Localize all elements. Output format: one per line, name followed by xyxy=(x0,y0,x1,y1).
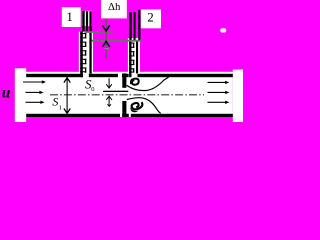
svg-text:1: 1 xyxy=(66,9,73,24)
svg-text:1: 1 xyxy=(59,105,62,112)
svg-text:Δh: Δh xyxy=(108,1,121,13)
svg-text:u: u xyxy=(2,85,11,102)
svg-text:2: 2 xyxy=(147,10,154,25)
svg-text:0: 0 xyxy=(91,86,94,93)
svg-text:S: S xyxy=(52,95,58,109)
